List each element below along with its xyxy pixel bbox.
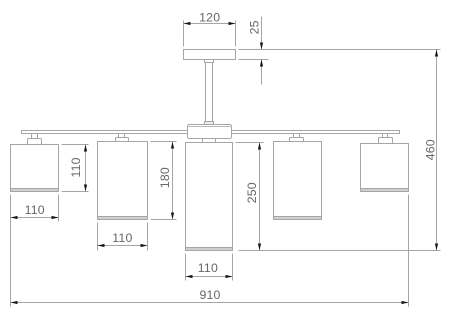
dimension 110 shade1 height: [62, 145, 89, 192]
connector shade5: [379, 134, 393, 144]
dimension 250 shade3 height: [236, 143, 441, 251]
shade 5: [361, 144, 409, 192]
svg-text:180: 180: [158, 167, 172, 188]
shade 3 center: [186, 143, 233, 251]
svg-text:120: 120: [199, 10, 220, 24]
svg-text:110: 110: [25, 203, 45, 217]
svg-text:110: 110: [112, 231, 132, 245]
connector shade1: [28, 134, 42, 145]
shade 2: [98, 142, 148, 220]
dimension 110 shade3 width: [186, 254, 233, 281]
svg-text:250: 250: [245, 182, 259, 203]
svg-text:25: 25: [247, 20, 261, 34]
connector shade2: [116, 134, 129, 142]
svg-text:110: 110: [69, 157, 83, 177]
dimension 110 shade1 width: [11, 195, 59, 307]
stem: [206, 63, 213, 122]
svg-text:910: 910: [199, 288, 220, 302]
stem collar: [205, 60, 214, 63]
dimension 110 shade2 width: [98, 223, 148, 251]
dimension 910 overall width: [11, 195, 409, 307]
shade 1: [11, 145, 59, 192]
bar right arm: [232, 131, 400, 134]
hub lower connector: [203, 139, 216, 143]
bar left arm: [22, 131, 188, 134]
dimension 180 shade2 height: [151, 142, 177, 220]
dimension 25 plate height: [239, 17, 441, 85]
shade 4: [274, 142, 322, 220]
central hub: [188, 125, 232, 139]
stem flare: [205, 122, 214, 125]
ceiling plate: [184, 50, 236, 60]
dimension 460 total height: [423, 50, 438, 251]
dimension 120 plate width: [184, 10, 236, 46]
svg-text:110: 110: [198, 261, 218, 275]
connector shade4: [290, 134, 304, 142]
svg-text:460: 460: [423, 139, 437, 160]
